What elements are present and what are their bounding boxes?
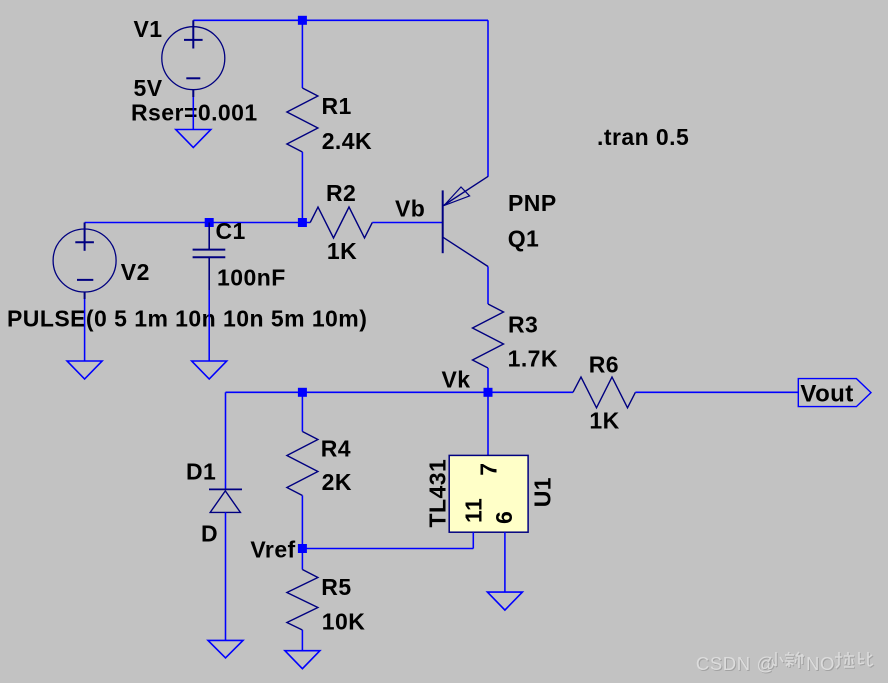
wire U1 pin 11 stub: [472, 532, 474, 548]
wire V2 to ground: [84, 299, 86, 361]
wire V1 to ground: [192, 97, 194, 129]
svg-text:1K: 1K: [327, 238, 357, 264]
wire C1 to ground: [208, 290, 210, 361]
wire left rail V2 to R2: [85, 222, 311, 224]
svg-text:2.4K: 2.4K: [322, 128, 372, 154]
diode D1: [225, 392, 227, 489]
svg-text:10K: 10K: [322, 609, 366, 635]
svg-text:TL431: TL431: [424, 459, 450, 528]
svg-text:PULSE(0 5 1m 10n 10n 5m 10m): PULSE(0 5 1m 10n 10n 5m 10m): [7, 305, 367, 331]
resistor R4: [287, 432, 318, 496]
svg-text:R2: R2: [326, 180, 356, 206]
resistor R5: [287, 570, 318, 631]
svg-text:PNP: PNP: [508, 190, 557, 216]
ground U1: [487, 592, 522, 610]
wire R1 top lead: [301, 20, 303, 88]
svg-text:D1: D1: [186, 458, 216, 484]
wire Vref to U1 pin 11: [302, 548, 473, 550]
wire top rail V1 to emitter: [193, 19, 488, 21]
resistor R1: [287, 88, 318, 152]
node junction R1/R2: [298, 218, 307, 227]
svg-text:R1: R1: [322, 93, 352, 119]
wire U1 pin 6 to ground: [504, 532, 506, 592]
svg-text:6: 6: [491, 511, 517, 524]
svg-text:2K: 2K: [322, 469, 352, 495]
ground D1: [208, 640, 243, 658]
port flag Vout: [798, 379, 871, 408]
wire emitter vertical: [487, 20, 489, 176]
wire Vk to U1 pin 7: [487, 392, 489, 455]
wire R4 top lead: [301, 392, 303, 431]
svg-text:V1: V1: [134, 16, 163, 42]
watermark glyph xin: [785, 652, 805, 669]
svg-text:D: D: [201, 520, 218, 546]
ground R5: [285, 651, 320, 669]
ground V2: [67, 361, 102, 379]
resistor R6: [573, 377, 635, 408]
svg-text:1.7K: 1.7K: [508, 346, 558, 372]
wire R4 to Vref: [301, 496, 303, 549]
node junction R4 top: [298, 388, 307, 397]
svg-text:R4: R4: [321, 435, 351, 461]
wire collector lead: [487, 267, 489, 305]
svg-text:Rser=0.001: Rser=0.001: [131, 99, 258, 125]
voltage source V1: [162, 20, 225, 97]
node junction Vref: [298, 544, 307, 553]
svg-text:11: 11: [461, 498, 487, 523]
svg-text:Vb: Vb: [395, 196, 425, 222]
node junction Vk: [484, 388, 493, 397]
svg-text:C1: C1: [216, 218, 246, 244]
svg-text:5V: 5V: [134, 75, 163, 101]
svg-text:Vk: Vk: [442, 366, 471, 392]
svg-text:.tran 0.5: .tran 0.5: [597, 124, 689, 150]
resistor R3: [473, 304, 504, 368]
wire R3 to Vk: [487, 368, 489, 392]
watermark CSDN: [696, 653, 777, 675]
svg-text:Vout: Vout: [800, 380, 853, 407]
node junction C1 top: [205, 218, 214, 227]
svg-text:1K: 1K: [589, 408, 619, 434]
ground V1: [176, 130, 211, 148]
wire R1 bottom lead: [301, 152, 303, 223]
svg-text:7: 7: [475, 463, 501, 476]
svg-text:CSDN @: CSDN @: [696, 653, 776, 674]
svg-text:100nF: 100nF: [217, 265, 286, 291]
svg-text:U1: U1: [530, 477, 556, 507]
svg-text:R6: R6: [589, 351, 619, 377]
IC U1 TL431 body: [449, 455, 528, 532]
watermark NO: [806, 653, 836, 675]
transistor Q1 PNP: [443, 176, 488, 266]
watermark glyph bi: [859, 652, 874, 667]
resistor R2: [310, 207, 372, 238]
wire R5 top lead: [301, 549, 303, 570]
svg-text:V2: V2: [121, 259, 150, 285]
wire D1 to ground: [225, 512, 227, 640]
voltage source V2: [53, 223, 116, 300]
wire R6 to Vout: [635, 391, 798, 393]
wire R2 to base: [372, 222, 442, 224]
watermark glyph la: [835, 652, 855, 669]
ground C1: [192, 361, 227, 379]
wire R5 to ground: [301, 630, 303, 651]
svg-text:NO: NO: [806, 653, 835, 674]
capacitor C1: [193, 223, 226, 291]
svg-text:R5: R5: [321, 574, 351, 600]
svg-text:R3: R3: [508, 311, 538, 337]
svg-text:Q1: Q1: [508, 226, 540, 252]
watermark glyph xiao: [768, 652, 784, 667]
node junction top (R1 top): [298, 16, 307, 25]
svg-text:Vref: Vref: [250, 536, 295, 562]
wire bottom rail: [226, 391, 574, 393]
